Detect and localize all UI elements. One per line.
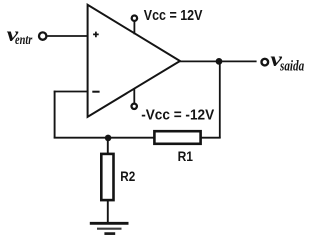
svg-text:R2: R2 [120, 168, 135, 184]
svg-text:saida: saida [279, 59, 304, 75]
svg-text:-Vcc = -12V: -Vcc = -12V [141, 107, 214, 123]
svg-text:Vcc = 12V: Vcc = 12V [144, 8, 203, 24]
svg-text:entr: entr [15, 33, 33, 48]
svg-text:R1: R1 [178, 148, 194, 164]
